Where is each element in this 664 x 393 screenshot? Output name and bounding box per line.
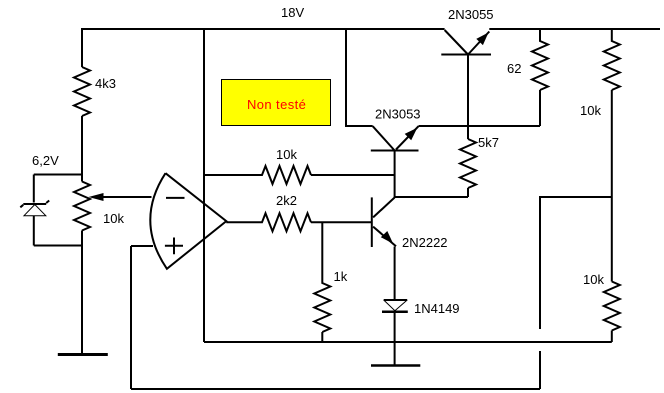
svg-text:1k: 1k [334, 269, 348, 284]
zener diode D 6.2V [20, 201, 49, 216]
transistor Q 2N3053 [371, 126, 419, 150]
resistor R 5k7 [460, 139, 476, 197]
svg-text:18V: 18V [281, 5, 304, 20]
svg-text:6,2V: 6,2V [32, 153, 59, 168]
ground middle [371, 364, 420, 367]
ground left [58, 353, 108, 356]
wire 18V rail right segment [489, 28, 660, 30]
wire 18V rail left segment [82, 28, 445, 30]
wire vertical bus x=204 [203, 28, 205, 342]
resistor R 10k bottom-right [604, 282, 620, 343]
svg-text:1N4149: 1N4149 [414, 301, 460, 316]
svg-text:10k: 10k [103, 211, 124, 226]
wire y=197 right link [540, 196, 612, 198]
yellow note box [222, 80, 331, 126]
wire diode to bottom rail and ground [394, 313, 396, 365]
svg-text:2k2: 2k2 [276, 193, 297, 208]
transistor Q 2N2222 [372, 197, 396, 247]
wire 2N3053 base vertical [394, 151, 396, 198]
wire 2N2222 emitter down to diode [394, 247, 396, 300]
resistor R 62 branch [532, 29, 548, 126]
wire left vertical bus x=82 [81, 28, 83, 353]
svg-text:62: 62 [507, 61, 521, 76]
resistor R 10k top-right branch [604, 29, 620, 282]
resistor R 10k feedback [204, 166, 395, 184]
potentiometer R 10k [74, 182, 90, 231]
svg-text:2N3055: 2N3055 [448, 7, 494, 22]
svg-text:10k: 10k [580, 103, 601, 118]
wire 2N3053 collector horizontal [345, 125, 373, 127]
diode D 1N4149 [382, 300, 408, 312]
svg-text:10k: 10k [583, 272, 604, 287]
wire 2N3055 base vertical [467, 55, 469, 139]
wire op-amp plus input [131, 245, 153, 247]
arrowhead potentiometer wiper [89, 193, 104, 201]
svg-text:4k3: 4k3 [95, 76, 116, 91]
wire vertical x=131 [130, 246, 132, 389]
wire bottom rail y=342 [204, 341, 612, 343]
wire bottom feedback y=389 [131, 388, 540, 390]
wire zener bottom [34, 245, 82, 247]
svg-text:10k: 10k [276, 147, 297, 162]
wire vertical x=346 to 2N3053 collector [345, 28, 347, 126]
svg-text:2N2222: 2N2222 [402, 235, 448, 250]
svg-text:Non testé: Non testé [247, 97, 306, 112]
wire 2N3053 emitter to node y=126 [419, 125, 541, 127]
arrowhead 2N3055 emitter [476, 33, 488, 46]
op-amp U1 [150, 173, 226, 269]
wire vertical x=540 lower with gap [539, 196, 541, 389]
wire 5k7 bottom y=197 [395, 196, 468, 198]
arrowhead 2N2222 emitter [381, 231, 393, 244]
arrowhead 2N3053 emitter [405, 128, 418, 141]
wire op-amp minus input from wiper [98, 196, 152, 198]
resistor R 4k3 [74, 67, 90, 116]
resistor R 2k2 with output wire [226, 213, 371, 231]
wire zener top [34, 174, 82, 176]
wire zener branch vertical [33, 175, 35, 246]
resistor R 1k branch [314, 222, 330, 342]
transistor Q 2N3055 [441, 30, 491, 55]
svg-text:2N3053: 2N3053 [375, 107, 421, 122]
svg-text:5k7: 5k7 [478, 135, 499, 150]
